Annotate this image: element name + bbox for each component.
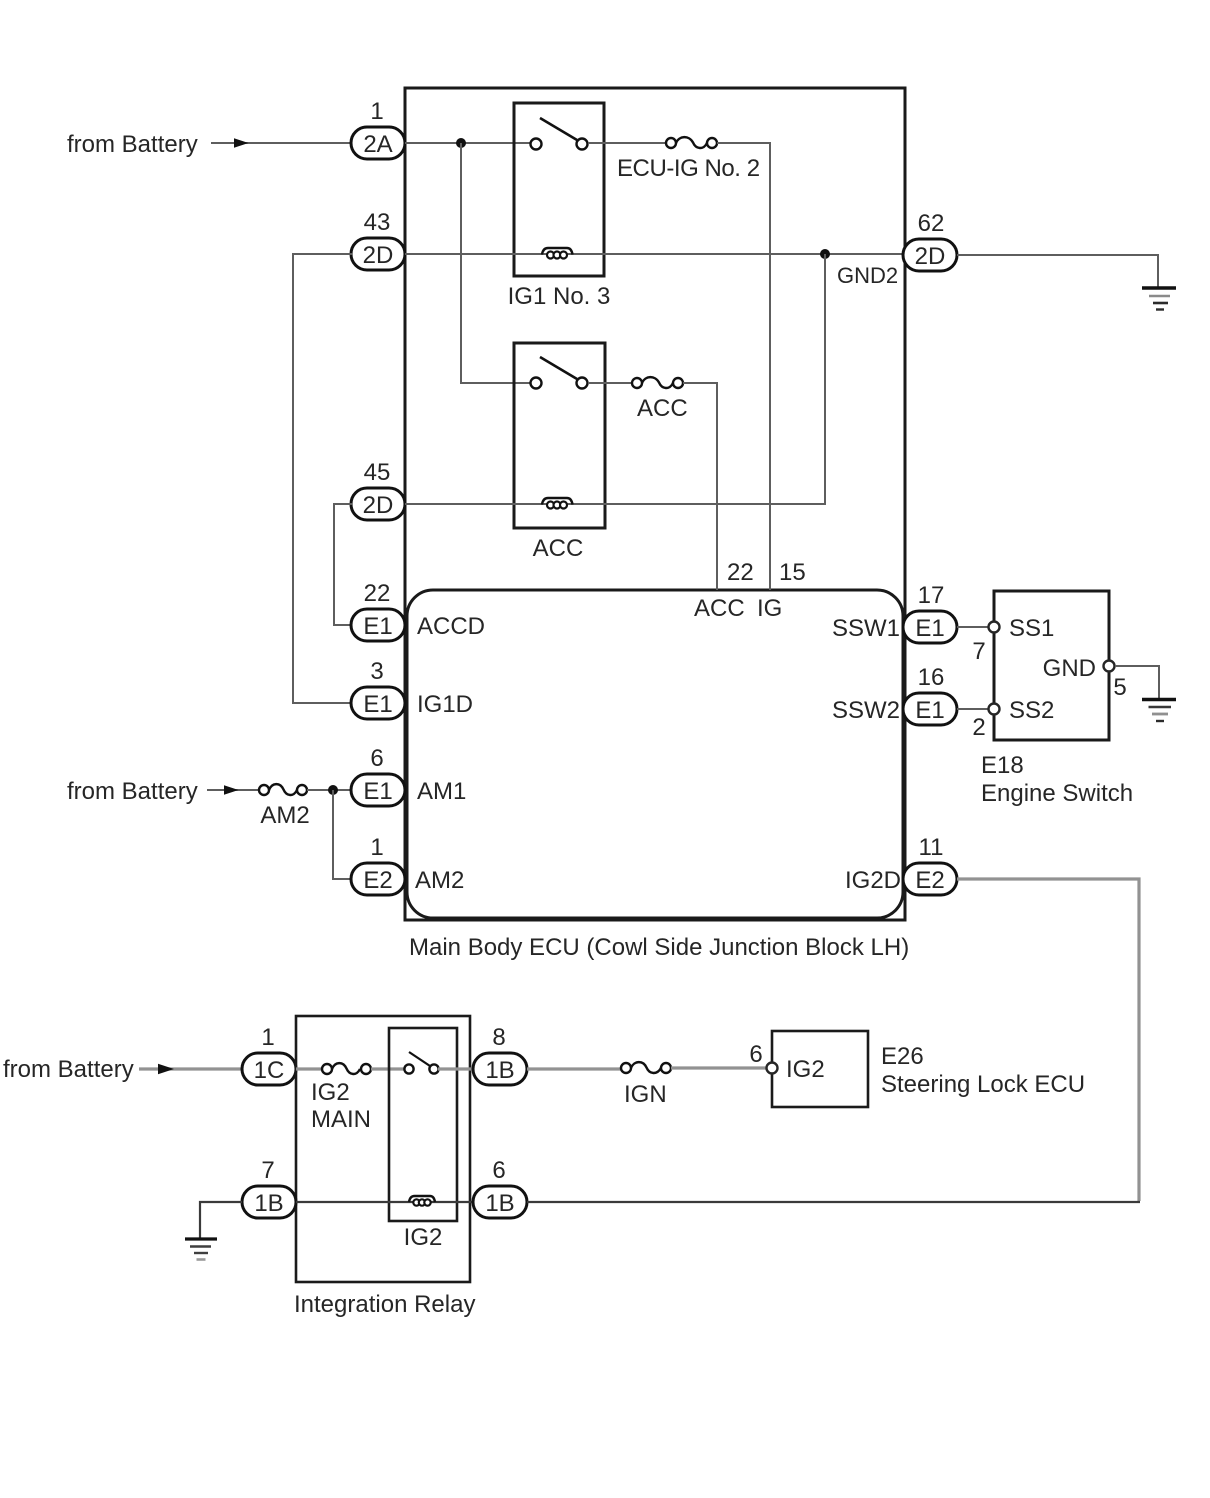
wire IG1 contact to fuse ECU-IG No.2 — [588, 142, 666, 144]
svg-text:IG2: IG2 — [786, 1056, 825, 1083]
relay IG1 contact right — [577, 139, 588, 150]
pin circle SS2 — [989, 704, 1000, 715]
wire junction down to ACC relay — [461, 143, 531, 383]
connector 2D (45) — [351, 488, 405, 520]
svg-text:E1: E1 — [915, 615, 944, 642]
wire fuse IGN to steering lock ECU (gray) — [671, 1066, 767, 1069]
relay ACC contact left — [531, 378, 542, 389]
svg-text:11: 11 — [919, 834, 944, 861]
connector E2 (11) — [903, 863, 957, 895]
svg-text:3: 3 — [370, 658, 383, 685]
junction dot GND2 node — [820, 249, 830, 259]
relay IG1 No. 3 box — [514, 103, 604, 276]
svg-text:62: 62 — [918, 210, 945, 237]
svg-text:from Battery: from Battery — [3, 1056, 134, 1083]
svg-text:IGN: IGN — [624, 1081, 667, 1108]
arrow from battery (top) — [211, 142, 352, 144]
svg-text:1: 1 — [261, 1024, 274, 1051]
svg-text:Engine Switch: Engine Switch — [981, 780, 1133, 807]
relay IG1 contact left — [531, 139, 542, 150]
wire fuse to IG drop — [717, 143, 770, 590]
svg-text:2D: 2D — [363, 242, 394, 269]
relay ACC box — [514, 343, 605, 528]
svg-text:E18: E18 — [981, 752, 1024, 779]
relay IG2 blade — [409, 1052, 430, 1066]
relay IG1 coil — [542, 248, 573, 259]
svg-text:2D: 2D — [915, 243, 946, 270]
svg-text:2A: 2A — [363, 131, 392, 158]
svg-text:ACC: ACC — [533, 535, 584, 562]
ground symbol (E18 GND) — [1142, 700, 1176, 722]
wire 2D(62) to ground — [957, 255, 1158, 287]
svg-text:7: 7 — [972, 638, 985, 665]
connector E1 (22) — [351, 609, 405, 641]
relay IG2 box — [389, 1028, 457, 1221]
fuse AM2 — [259, 784, 307, 795]
integration relay box — [296, 1016, 470, 1282]
fuse IG2 MAIN — [322, 1063, 371, 1074]
wire 2D(43) left and down to IG1D — [293, 254, 352, 703]
steering lock ECU E26 box — [772, 1031, 868, 1107]
svg-text:1B: 1B — [485, 1057, 514, 1084]
wire SSW1 to SS1 — [957, 626, 988, 628]
fuse ECU-IG No. 2 — [666, 137, 717, 148]
relay ACC coil — [542, 498, 573, 509]
junction-block outer box (Cowl Side Junction Block LH) — [405, 88, 905, 920]
arrow from battery (middle) — [207, 789, 259, 791]
svg-text:SSW2: SSW2 — [832, 697, 900, 724]
svg-text:MAIN: MAIN — [311, 1106, 371, 1133]
relay IG2 coil — [409, 1196, 435, 1206]
svg-text:Main Body ECU (Cowl Side Junct: Main Body ECU (Cowl Side Junction Block … — [409, 934, 909, 961]
svg-text:6: 6 — [370, 745, 383, 772]
svg-text:7: 7 — [261, 1157, 274, 1184]
svg-text:IG2: IG2 — [404, 1224, 443, 1251]
svg-text:E1: E1 — [915, 697, 944, 724]
svg-text:1: 1 — [370, 98, 383, 125]
svg-text:GND: GND — [1043, 655, 1096, 682]
connector 1B (7) — [242, 1186, 296, 1218]
fuse IGN — [621, 1062, 671, 1073]
connector 1B (8) — [473, 1053, 527, 1085]
junction dot node B+ — [456, 138, 466, 148]
wire fuse IG2 to relay contact (gray) — [371, 1067, 404, 1070]
svg-text:SSW1: SSW1 — [832, 615, 900, 642]
wire 2A into relay IG1 — [405, 142, 531, 144]
svg-text:E2: E2 — [363, 867, 392, 894]
svg-text:1B: 1B — [485, 1190, 514, 1217]
pin circle SS1 — [989, 622, 1000, 633]
svg-text:from Battery: from Battery — [67, 131, 198, 158]
svg-text:SS2: SS2 — [1009, 697, 1054, 724]
svg-text:ACC: ACC — [694, 595, 745, 622]
wire 2D(45) left and down to ACCD — [334, 504, 352, 625]
svg-text:8: 8 — [492, 1024, 505, 1051]
svg-text:16: 16 — [918, 664, 945, 691]
svg-text:2: 2 — [972, 714, 985, 741]
Main Body ECU rounded box — [407, 590, 903, 918]
relay ACC blade — [540, 357, 577, 379]
svg-text:IG2D: IG2D — [845, 867, 901, 894]
svg-text:1B: 1B — [254, 1190, 283, 1217]
wire 1B(7) to ground — [200, 1202, 242, 1238]
svg-text:ACCD: ACCD — [417, 613, 485, 640]
svg-text:IG2: IG2 — [311, 1079, 350, 1106]
wire IG2D to integration relay (gray) — [957, 879, 1139, 1201]
connector 2D (62) — [903, 239, 957, 271]
svg-text:Integration Relay: Integration Relay — [294, 1291, 475, 1318]
svg-text:E1: E1 — [363, 691, 392, 718]
svg-text:from Battery: from Battery — [67, 778, 198, 805]
wire 2D(45) through ACC coil up to GND2 node — [405, 254, 825, 504]
svg-text:AM2: AM2 — [415, 867, 464, 894]
svg-text:1C: 1C — [254, 1057, 285, 1084]
wire ACC contact to fuse ACC — [588, 382, 632, 384]
connector E1 (17) — [903, 611, 957, 643]
svg-text:GND2: GND2 — [837, 263, 898, 288]
svg-text:IG1D: IG1D — [417, 691, 473, 718]
wire 1B(7) to relay coil — [296, 1201, 474, 1203]
junction dot AM feed — [328, 785, 338, 795]
arrow from battery (bottom) — [139, 1067, 243, 1070]
svg-text:E1: E1 — [363, 778, 392, 805]
svg-text:IG1 No. 3: IG1 No. 3 — [508, 283, 611, 310]
svg-text:6: 6 — [492, 1157, 505, 1184]
svg-text:Steering Lock ECU: Steering Lock ECU — [881, 1071, 1085, 1098]
svg-text:22: 22 — [727, 559, 754, 586]
wire SSW2 to SS2 — [957, 708, 988, 710]
relay ACC contact right — [577, 378, 588, 389]
svg-text:E1: E1 — [363, 613, 392, 640]
connector 2D (43) — [351, 238, 405, 270]
wire fuse AM2 to AM1 pin — [307, 789, 352, 791]
svg-text:ACC: ACC — [637, 395, 688, 422]
svg-text:AM2: AM2 — [260, 802, 309, 829]
wire relay contact to 1B(8) (gray) — [438, 1067, 474, 1070]
connector 2A — [351, 127, 405, 159]
svg-text:SS1: SS1 — [1009, 615, 1054, 642]
connector E1 (6) — [351, 774, 405, 806]
wire junction down to AM2 pin — [333, 790, 352, 879]
connector E1 (3) — [351, 687, 405, 719]
svg-text:45: 45 — [364, 459, 391, 486]
svg-text:E2: E2 — [915, 867, 944, 894]
wire fuse ACC to ACC drop — [683, 383, 717, 590]
connector 1C — [242, 1053, 296, 1085]
svg-text:IG: IG — [757, 595, 782, 622]
relay IG2 contact left — [404, 1064, 413, 1073]
ground symbol (integration relay) — [185, 1239, 217, 1260]
pin circle IG2 (E26) — [767, 1063, 778, 1074]
svg-text:6: 6 — [749, 1041, 762, 1068]
svg-text:E26: E26 — [881, 1043, 924, 1070]
svg-text:2D: 2D — [363, 492, 394, 519]
engine switch E18 box — [994, 591, 1109, 740]
wire GND to ground — [1115, 666, 1159, 698]
ground symbol (GND2) — [1142, 288, 1176, 310]
svg-text:17: 17 — [918, 582, 945, 609]
svg-text:5: 5 — [1113, 674, 1126, 701]
connector E1 (16) — [903, 693, 957, 725]
wire 1B(8) to fuse IGN (gray) — [527, 1067, 621, 1070]
wire 2D(43) through IG1 coil to 2D(62) — [405, 253, 903, 255]
svg-text:43: 43 — [364, 209, 391, 236]
relay IG2 contact right — [429, 1064, 438, 1073]
wire 1C to fuse IG2 (gray) — [296, 1067, 322, 1070]
svg-text:AM1: AM1 — [417, 778, 466, 805]
wire 1B(6) to IG2D line — [527, 1201, 1140, 1203]
svg-text:15: 15 — [779, 559, 806, 586]
fuse ACC — [632, 377, 683, 388]
connector 1B (6) — [473, 1186, 527, 1218]
svg-text:22: 22 — [364, 580, 391, 607]
svg-text:1: 1 — [370, 834, 383, 861]
svg-text:ECU-IG No. 2: ECU-IG No. 2 — [617, 155, 760, 182]
pin circle GND — [1104, 661, 1115, 672]
connector E2 (1) — [351, 863, 405, 895]
relay IG1 blade — [540, 118, 577, 140]
